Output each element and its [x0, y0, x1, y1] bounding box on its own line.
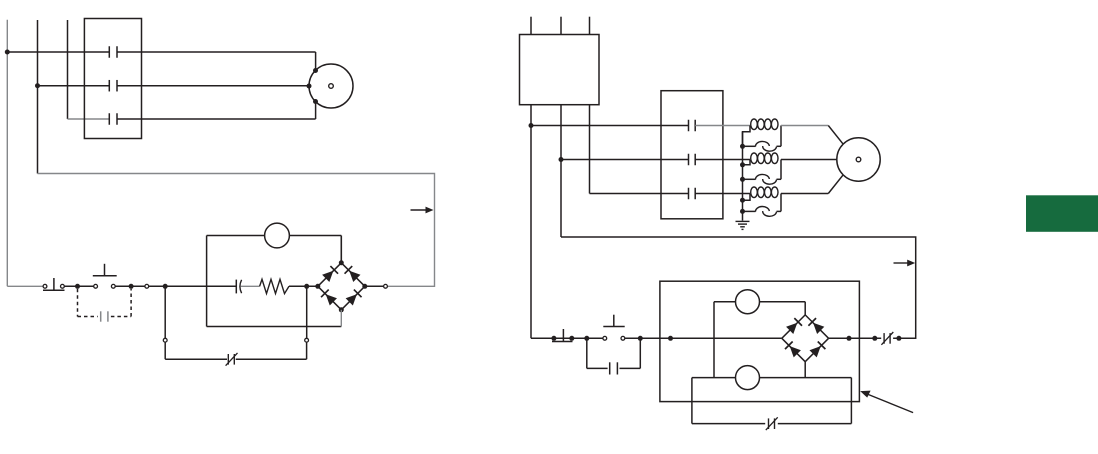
inductor coil phase3: [751, 187, 758, 198]
wire line2 right to contact: [561, 159, 689, 161]
arrow pointing to module box: [864, 393, 913, 413]
contact M-aux seal-in (dashed): [77, 289, 79, 317]
wire control feed loop from L2: [38, 174, 435, 287]
node after timed contact: [896, 336, 901, 341]
wire contact2 to inductor: [695, 159, 750, 161]
terminal start button right: [111, 284, 115, 288]
pushbutton START (NO) right: [603, 326, 624, 328]
arrow to control circuit (left): [411, 209, 428, 211]
contact S2 (phase 2): [688, 154, 690, 166]
wire line2 to contact: [38, 85, 110, 87]
node seal-in left: [75, 284, 80, 289]
wire bridge bottom to box: [340, 310, 342, 327]
wire start to box right: [625, 337, 782, 339]
terminal start left right-ckt: [603, 336, 607, 340]
contact TR timed (NC with slash): [227, 354, 229, 365]
wire bridge to terminal: [365, 285, 384, 287]
contact M2 (load contact, phase 2): [108, 80, 110, 92]
wire L2 right feeder: [560, 105, 562, 237]
pushbutton STOP (NC) right: [552, 341, 573, 343]
wire stop to start: [64, 285, 93, 287]
node before timed contact: [872, 336, 877, 341]
ground symbol: [736, 220, 750, 222]
node box entry right: [668, 336, 673, 341]
wire supply stub 1: [530, 17, 532, 35]
node motor T1: [313, 68, 318, 73]
contact M1 (load contact, phase 1): [108, 46, 110, 58]
wire contact1 to inductor: [695, 125, 750, 127]
coil S relay (upper circle): [736, 290, 760, 314]
node L2/line2 right: [559, 157, 564, 162]
wire line3 right to contact: [590, 193, 689, 195]
terminal start right right-ckt: [621, 336, 625, 340]
node seal-in right: [129, 284, 134, 289]
motor MTR1 (3-phase motor): [309, 64, 353, 108]
contact timed NC (bottom, right): [768, 418, 770, 429]
wire to bridge branch: [149, 285, 237, 287]
wire control feed loop right: [561, 237, 916, 338]
contact timed NC (line, right): [883, 333, 885, 344]
wire capacitor to resistor: [241, 285, 260, 287]
wire inductor1 to motor: [781, 125, 828, 127]
wire bridge bottom right-ckt: [804, 362, 806, 378]
terminal aux: [145, 284, 149, 288]
node junction L2/line2: [35, 83, 40, 88]
node junction L1/line1: [5, 50, 10, 55]
wire interlock left leg: [164, 286, 166, 338]
terminal stop button right: [61, 284, 65, 288]
wire bridge node to interlock: [306, 286, 308, 338]
node motor T2: [307, 84, 312, 89]
inductor coil phase2: [751, 153, 758, 164]
wire start to node: [115, 285, 145, 287]
node bridge out right: [847, 336, 852, 341]
wire bridge top to coil loop: [340, 236, 342, 263]
pushbutton STOP (NC) left: [43, 289, 65, 291]
pushbutton START (NO) left: [93, 275, 117, 277]
terminal interlock left: [163, 338, 167, 342]
wire coil1 branch: [714, 301, 736, 303]
node tap 3: [740, 209, 745, 214]
terminal start button left: [94, 284, 98, 288]
node tap 2: [740, 177, 745, 182]
coil R relay (lower circle): [736, 366, 760, 390]
green index tab: [1026, 195, 1098, 232]
wire neutral bus: [742, 132, 744, 221]
wire inductor2 to motor: [781, 159, 837, 161]
contact M3 (load contact, phase 3): [108, 113, 110, 125]
wire L1 right feeder: [530, 105, 532, 339]
contact S3 (phase 3): [688, 188, 690, 200]
braking module box (left): [206, 236, 208, 327]
autotransformer winding 3 loop: [743, 194, 751, 201]
node motor T3: [313, 99, 318, 104]
motor MTR2 (3-phase motor): [837, 138, 880, 181]
wire line end right: [893, 337, 916, 339]
wire line1 right to contact: [531, 125, 689, 127]
controller enclosure box (right): [660, 281, 860, 401]
wire inductor3 to motor: [781, 193, 828, 195]
node seal tap 2 right: [638, 336, 643, 341]
node jog 3: [740, 198, 745, 203]
terminal control out: [384, 284, 388, 288]
wire line1 to contact: [7, 51, 109, 53]
wire bridge to timed contact: [829, 337, 882, 339]
wire contact3 to inductor: [695, 193, 750, 195]
wire to start right: [587, 337, 603, 339]
terminal interlock right: [305, 338, 309, 342]
wire L2 phase line: [37, 20, 39, 174]
wire L3 right feeder: [589, 105, 591, 194]
arrow to control circuit (right): [894, 262, 910, 264]
wire L1 phase line (left feeder): [6, 20, 8, 287]
wire interlock right leg: [306, 342, 308, 359]
node tap 1: [740, 144, 745, 149]
terminal stop button left: [43, 284, 47, 288]
capacitor C1: [235, 280, 237, 294]
coil M relay (circle): [265, 223, 290, 248]
autotransformer winding 2 loop: [743, 160, 751, 165]
wire line3 contact to motor T3: [117, 118, 316, 120]
node jog 2: [740, 162, 745, 167]
wire L3 phase line: [67, 20, 69, 119]
wire interlock bottom: [164, 342, 166, 359]
contactor M enclosure box: [84, 19, 141, 139]
inner module box (right): [691, 378, 693, 424]
disconnect box (right): [520, 35, 600, 105]
rectifier bridge D1-D4 (left): [318, 263, 342, 287]
node stop right right-ckt: [569, 336, 574, 341]
wire supply stub 2: [560, 17, 562, 35]
wire supply stub 3: [589, 17, 591, 35]
contact seal-in right: [586, 338, 588, 368]
node seal tap 1 right: [584, 336, 589, 341]
wire line1 contact to motor T1: [117, 51, 316, 53]
contactor enclosure box (right): [661, 91, 723, 219]
node stop left right-ckt: [551, 336, 556, 341]
wire line2 contact to motor T2: [117, 85, 309, 87]
wire resistor to bridge: [289, 285, 318, 287]
node interlock tap: [163, 284, 168, 289]
node L1/line1 right: [529, 123, 534, 128]
resistor R1: [260, 279, 289, 293]
wire control line right segment A: [531, 337, 587, 339]
rectifier bridge D5-D8 (right): [782, 315, 805, 338]
wire coil branch vertical: [713, 302, 715, 378]
inductor coil phase1: [751, 119, 758, 130]
node bridge AC left: [304, 284, 309, 289]
contact S1 (phase 1): [688, 120, 690, 132]
autotransformer winding 1 loop: [743, 126, 751, 147]
